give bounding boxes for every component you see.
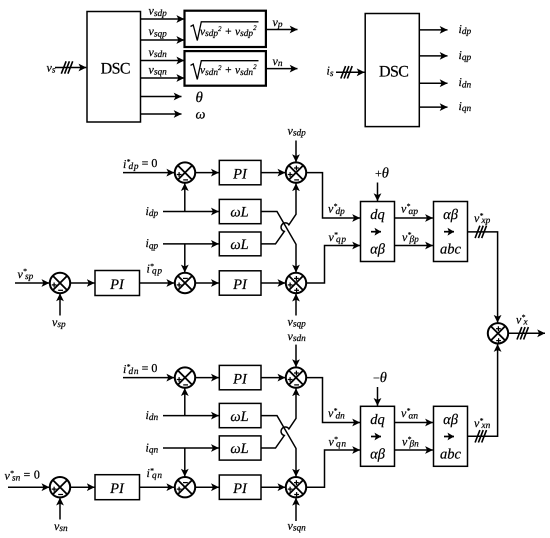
wire +theta into dq block xyxy=(377,183,379,202)
summing junction vqp* output xyxy=(286,273,306,293)
wire vsn* input xyxy=(8,486,49,488)
svg-text:PI: PI xyxy=(232,372,248,388)
wire vqp* to dq block xyxy=(306,246,360,284)
wire idn input xyxy=(163,415,219,417)
three-phase slash vx* xyxy=(517,327,528,339)
wire iqp branch to error sum xyxy=(184,244,186,273)
wire is input xyxy=(336,71,365,73)
svg-text:i*d p = 0: i*d p = 0 xyxy=(123,156,157,172)
wire idn out xyxy=(419,82,447,84)
block PI controller d+ xyxy=(219,160,261,184)
block alpha-beta to abc transform (positive) xyxy=(434,202,468,262)
wire PI to sum q+ xyxy=(261,282,285,284)
wire idn branch to error sum xyxy=(184,388,186,415)
svg-text:abc: abc xyxy=(440,242,462,258)
block PI controller q+ xyxy=(219,271,261,295)
summing junction final vx* output xyxy=(488,323,508,343)
summing junction current error q+ xyxy=(175,273,195,293)
wire vsp* input xyxy=(15,282,49,284)
block dq to alpha-beta transform (positive) xyxy=(361,202,395,262)
wire vsdp out xyxy=(141,18,185,20)
wire vbetap* to abc block xyxy=(395,245,433,247)
block PI controller d- xyxy=(219,365,261,389)
wire vbetan* to abc block xyxy=(395,449,433,451)
wire vsqn out xyxy=(141,77,185,79)
svg-text:αβ: αβ xyxy=(370,242,386,258)
svg-text:i*d n = 0: i*d n = 0 xyxy=(123,361,157,377)
svg-text:DSC: DSC xyxy=(379,64,408,81)
wire error to PI d- xyxy=(195,377,218,379)
wire vsdn down into sum xyxy=(295,345,297,367)
wire omega out xyxy=(141,113,182,115)
block cross-coupling wL lower (positive) xyxy=(219,232,261,256)
wire idp input xyxy=(163,211,219,213)
block PI voltage controller n xyxy=(95,475,140,500)
summing junction current error q- xyxy=(175,477,195,497)
three-phase slash vs xyxy=(61,61,72,73)
block DSC1 (voltage decomposition) xyxy=(87,12,141,123)
wire vdn* to dq block xyxy=(306,378,360,423)
summing junction current error d+ xyxy=(175,162,195,182)
block negative-sequence magnitude sqrt(vsdn^2+vsdn^2) xyxy=(185,51,266,86)
svg-text:PI: PI xyxy=(232,277,248,293)
block cross-coupling wL upper (positive) xyxy=(219,199,261,223)
wire valphan* to abc block xyxy=(395,422,433,424)
summing junction current error d- xyxy=(175,367,195,387)
wire wL lower to d-sum negative (cross up with hop) xyxy=(261,388,296,448)
summing junction vdn* output xyxy=(286,367,306,387)
wire vs input xyxy=(55,67,86,69)
wire idn* reference xyxy=(123,377,174,379)
wire voltage error to PI n xyxy=(70,486,94,488)
summing junction vqn* output xyxy=(286,477,306,497)
wire error to PI q- xyxy=(195,486,218,488)
wire iqn input xyxy=(163,447,219,449)
svg-text:PI: PI xyxy=(232,481,248,497)
three-phase slash vxn* xyxy=(475,430,486,442)
wire vsdp down into sum xyxy=(295,141,297,163)
three-phase slash is xyxy=(341,66,352,78)
svg-text:ωL: ωL xyxy=(230,237,248,253)
block PI voltage controller p xyxy=(95,271,140,296)
wire valphap* to abc block xyxy=(395,217,433,219)
svg-text:ωL: ωL xyxy=(230,441,248,457)
summing junction vdp* output xyxy=(286,162,306,182)
svg-text:αβ: αβ xyxy=(370,446,386,462)
wire idp branch to error sum xyxy=(184,183,186,211)
wire iqn out xyxy=(419,106,447,108)
wire vqn* to dq block xyxy=(306,450,360,487)
wire vn out xyxy=(266,68,298,70)
wire error to PI q+ xyxy=(195,282,218,284)
wire PI to sum q- xyxy=(261,486,285,488)
svg-text:dq: dq xyxy=(370,412,385,428)
svg-text:DSC: DSC xyxy=(101,60,130,77)
wire iqp input xyxy=(163,243,219,245)
summing junction voltage error p xyxy=(50,273,70,293)
wire -theta into dq block xyxy=(377,387,379,406)
wire idp* reference xyxy=(123,172,174,174)
three-phase slash vxp* xyxy=(475,226,486,238)
wire PI to sum d+ xyxy=(261,172,285,174)
wire vx* output xyxy=(508,332,545,334)
wire vsqn up into sum xyxy=(295,498,297,521)
svg-text:ω: ω xyxy=(196,108,206,123)
wire theta out xyxy=(141,96,182,98)
svg-text:ωL: ωL xyxy=(230,409,248,425)
wire voltage error to PI p xyxy=(70,282,94,284)
wire iqn* to error sum xyxy=(140,486,175,488)
svg-text:abc: abc xyxy=(440,446,462,462)
block positive-sequence magnitude sqrt(vsdp^2+vsdp^2) xyxy=(185,11,266,47)
wire wL upper to q-sum negative (cross down) xyxy=(261,416,296,477)
wire vsqp up into sum xyxy=(295,294,297,316)
wire vsqp out xyxy=(141,39,185,41)
block dq to alpha-beta transform (negative) xyxy=(361,406,395,466)
wire iqp* to error sum xyxy=(140,282,175,284)
svg-text:αβ: αβ xyxy=(443,207,459,223)
wire vxp* to final sum xyxy=(468,232,498,323)
wire vsn feedback up xyxy=(59,498,61,520)
block DSC2 (current decomposition) xyxy=(365,14,419,127)
wire wL lower to d-sum (cross up with hop) xyxy=(261,183,296,244)
wire vxn* to final sum xyxy=(468,344,498,436)
block PI controller q- xyxy=(219,475,261,499)
wire vsdn out xyxy=(141,60,185,62)
block cross-coupling wL upper (negative) xyxy=(219,403,261,427)
svg-text:ωL: ωL xyxy=(230,205,248,221)
svg-text:PI: PI xyxy=(232,167,248,183)
wire vp out xyxy=(266,29,298,31)
summing junction voltage error n xyxy=(50,477,70,497)
block cross-coupling wL lower (negative) xyxy=(219,436,261,460)
wire idp out xyxy=(419,29,447,31)
svg-text:αβ: αβ xyxy=(443,412,459,428)
svg-text:+θ: +θ xyxy=(375,166,389,182)
radical sign box2 xyxy=(191,61,259,80)
wire iqp out xyxy=(419,55,447,57)
wire wL upper to q-sum (cross down) xyxy=(261,212,296,273)
svg-text:PI: PI xyxy=(109,277,125,293)
svg-text:PI: PI xyxy=(109,481,125,497)
svg-text:−θ: −θ xyxy=(373,370,387,386)
svg-text:dq: dq xyxy=(370,207,385,223)
wire iqn branch to error sum xyxy=(184,448,186,477)
block alpha-beta to abc transform (negative) xyxy=(434,406,468,466)
wire PI to sum d- xyxy=(261,377,285,379)
wire vsp feedback up xyxy=(59,294,61,316)
wire vdp* to dq block xyxy=(306,173,360,218)
radical sign box1 xyxy=(191,22,259,41)
svg-text:θ: θ xyxy=(196,90,204,106)
wire error to PI d+ xyxy=(195,172,218,174)
